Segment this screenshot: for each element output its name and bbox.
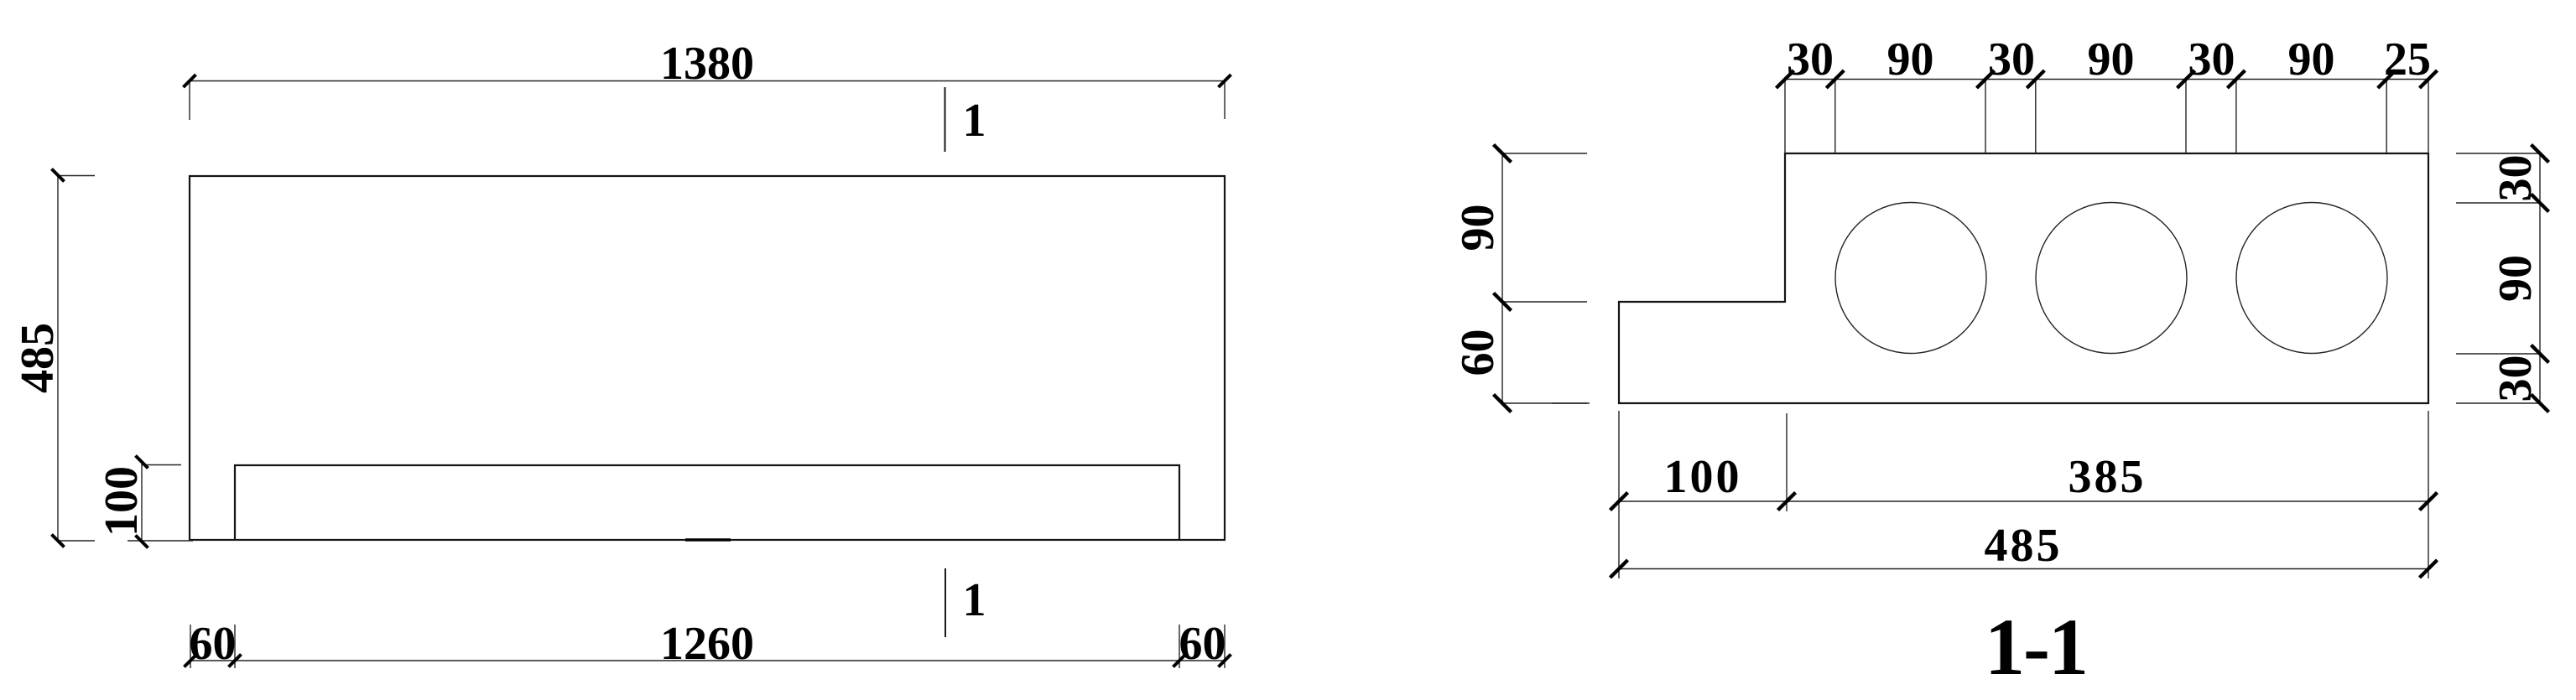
extension line at 60 bbox=[234, 625, 236, 668]
top extension line 240 bbox=[2185, 80, 2187, 154]
svg-text:30: 30 bbox=[2490, 355, 2542, 402]
top extension line 270 bbox=[2235, 80, 2237, 154]
right extension top bbox=[2456, 153, 2540, 154]
tick 485 left bbox=[1611, 560, 1628, 578]
tick bottom 100 bbox=[136, 536, 148, 548]
dimension line 100/385 bbox=[1619, 500, 2428, 502]
dimension line 485 left bbox=[57, 175, 59, 541]
svg-text:1380: 1380 bbox=[660, 38, 754, 90]
top extension line 30 bbox=[1834, 80, 1836, 154]
top extension line 150 bbox=[2035, 80, 2037, 154]
overlap segment on bottom edge bbox=[685, 538, 731, 541]
top tick 1 bbox=[1777, 70, 1794, 88]
right extension circle top bbox=[2456, 202, 2540, 204]
svg-text:90: 90 bbox=[2288, 34, 2335, 86]
svg-text:485: 485 bbox=[12, 323, 64, 393]
tick right 1380 bbox=[1219, 75, 1231, 87]
svg-text:60: 60 bbox=[1452, 329, 1504, 376]
tick 485 right bbox=[2420, 560, 2438, 578]
tick top 485 bbox=[52, 169, 65, 182]
left dimension line 90/60 bbox=[1501, 153, 1503, 403]
extension line left below bbox=[1618, 411, 1620, 578]
svg-text:1: 1 bbox=[963, 95, 986, 147]
svg-text:100: 100 bbox=[96, 466, 148, 537]
tick 100/385 bbox=[1778, 493, 1796, 511]
left tick top bbox=[1494, 145, 1512, 163]
tick bottom b bbox=[229, 655, 242, 667]
svg-text:25: 25 bbox=[2384, 34, 2431, 86]
extension line at 0 bbox=[190, 625, 191, 668]
extension line left of 1380 bbox=[189, 81, 190, 121]
top tick 7 bbox=[2378, 70, 2396, 88]
svg-text:30: 30 bbox=[2490, 155, 2542, 202]
svg-text:30: 30 bbox=[2188, 34, 2235, 86]
svg-text:1: 1 bbox=[963, 574, 986, 626]
svg-text:30: 30 bbox=[1787, 34, 1834, 86]
left tick bottom bbox=[1494, 395, 1512, 412]
stub bottom of 485 bbox=[58, 540, 95, 542]
svg-text:60: 60 bbox=[190, 618, 237, 670]
tick bottom 485 bbox=[52, 535, 65, 547]
plan view recess outline bbox=[235, 465, 1179, 540]
tick bottom d bbox=[1219, 655, 1231, 667]
extension line at 1380 bbox=[1224, 625, 1226, 668]
hollow core circle 3 bbox=[2236, 203, 2387, 354]
right tick 4 bbox=[2532, 395, 2549, 412]
tick bottom c bbox=[1174, 655, 1186, 667]
svg-text:100: 100 bbox=[1664, 451, 1742, 503]
left stub at top bbox=[1502, 153, 1587, 154]
top extension line 360 bbox=[2386, 80, 2387, 154]
right extension circle bottom bbox=[2456, 353, 2540, 355]
section mark 1 top line bbox=[945, 87, 946, 152]
top dimension line 30/90/30/90/30/90/25 bbox=[1785, 79, 2428, 80]
left stub at bottom bbox=[1502, 402, 1587, 404]
extension line step below bbox=[1786, 413, 1788, 511]
svg-text:90: 90 bbox=[1452, 205, 1504, 251]
svg-text:1-1: 1-1 bbox=[1985, 602, 2087, 692]
dimension line 485 bottom bbox=[1619, 568, 2428, 570]
top extension line 0 bbox=[1784, 80, 1786, 154]
svg-text:385: 385 bbox=[2069, 451, 2147, 503]
extension line bottom of 100 bbox=[127, 540, 193, 542]
extension line top of 100 bbox=[142, 464, 181, 466]
extension line right of 1380 bbox=[1224, 81, 1226, 120]
dimension line 1380 bbox=[190, 80, 1225, 82]
top tick 2 bbox=[1826, 70, 1844, 88]
top tick 3 bbox=[1977, 70, 1995, 88]
top tick 4 bbox=[2027, 70, 2044, 88]
right dimension line 30/90/30 bbox=[2539, 153, 2541, 403]
left stub at step bbox=[1502, 301, 1587, 303]
plan view outer rectangle bbox=[190, 176, 1225, 540]
top extension line 385 bbox=[2428, 80, 2429, 154]
svg-text:60: 60 bbox=[1179, 618, 1226, 670]
stub top of 485 bbox=[58, 175, 95, 177]
top extension line 120 bbox=[1985, 80, 1986, 154]
tick 385 right bbox=[2420, 493, 2438, 511]
svg-text:30: 30 bbox=[1988, 34, 2035, 86]
svg-text:1260: 1260 bbox=[660, 618, 754, 670]
section mark 1 bottom line bbox=[945, 568, 946, 637]
tick left 1380 bbox=[184, 75, 196, 87]
tick bottom a bbox=[185, 655, 197, 667]
top tick 5 bbox=[2178, 70, 2195, 88]
svg-text:90: 90 bbox=[2490, 255, 2542, 302]
top tick 8 bbox=[2420, 70, 2438, 88]
right extension bottom bbox=[2456, 402, 2540, 404]
tick 100 left bbox=[1611, 493, 1628, 511]
right tick 3 bbox=[2532, 345, 2549, 363]
stub left of section bottom bbox=[1552, 402, 1590, 404]
top tick 6 bbox=[2227, 70, 2245, 88]
left tick mid bbox=[1494, 293, 1512, 311]
right tick 2 bbox=[2532, 194, 2549, 212]
dimension line 100 bbox=[141, 462, 143, 542]
svg-text:90: 90 bbox=[2088, 34, 2135, 86]
extension line at 1320 bbox=[1179, 625, 1180, 668]
bottom dimension line 60/1260/60 bbox=[190, 660, 1225, 661]
right tick 1 bbox=[2532, 145, 2549, 163]
hollow core circle 1 bbox=[1835, 203, 1986, 354]
svg-text:485: 485 bbox=[1985, 520, 2063, 572]
section profile outline bbox=[1619, 153, 2428, 403]
tick top 100 bbox=[136, 456, 148, 469]
extension line right below bbox=[2428, 411, 2429, 578]
svg-text:90: 90 bbox=[1887, 34, 1934, 86]
hollow core circle 2 bbox=[2036, 203, 2187, 354]
